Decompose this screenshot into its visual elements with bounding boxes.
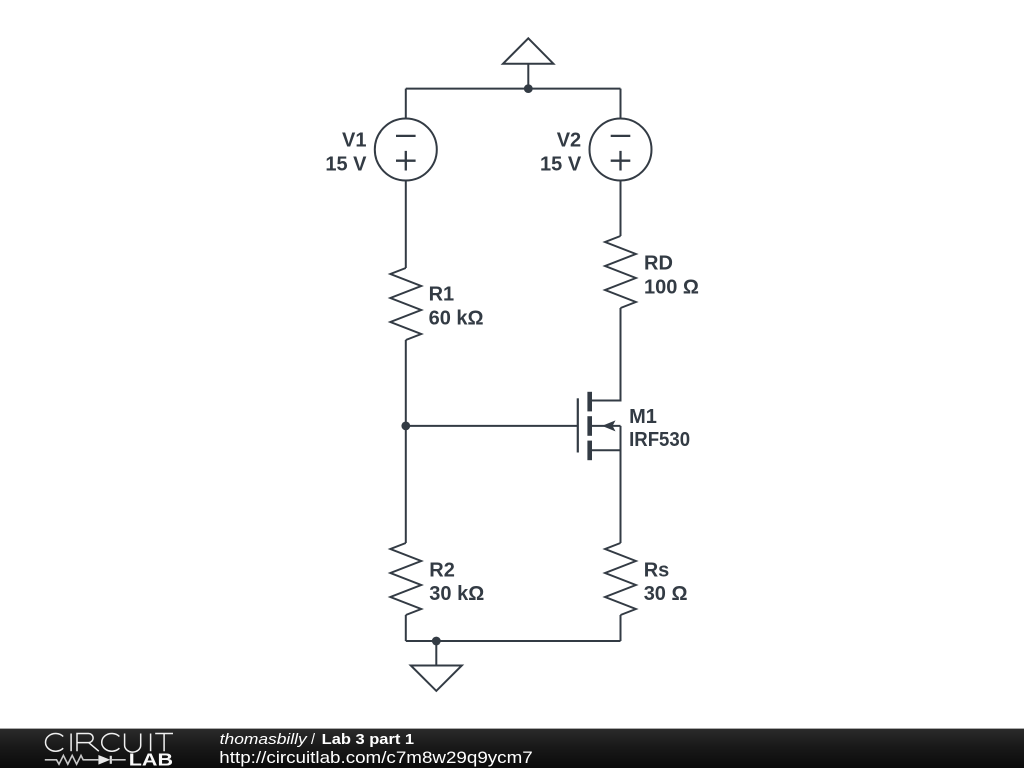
wire gate [406,425,578,427]
svg-text:IRF530: IRF530 [629,429,690,451]
wire Rs to bottom [620,615,622,641]
wire left top [405,89,407,119]
logo CIRCUIT [46,733,173,752]
wire R1 to R2 [405,340,407,543]
label R2 [429,559,484,605]
label M1 [629,406,690,451]
svg-text:http://circuitlab.com/c7m8w29q: http://circuitlab.com/c7m8w29q9ycm7 [219,748,532,767]
resistor RD [605,236,636,308]
wire V2 to RD [620,181,622,237]
footer title line [219,732,532,767]
wire right top [620,89,622,119]
resistor Rs [605,543,636,615]
svg-text:100 Ω: 100 Ω [644,277,699,299]
svg-text:30 Ω: 30 Ω [644,583,688,605]
svg-text:M1: M1 [629,406,657,428]
node top junction [524,84,533,93]
wire top horizontal [406,88,621,90]
wire R2 to bottom [405,615,407,641]
label V1 [325,130,367,176]
transistor M1 [578,392,621,460]
node ground junction [432,637,441,646]
wire V1 to R1 [405,181,407,269]
svg-text:Lab 3 part 1: Lab 3 part 1 [322,732,414,748]
voltage source V1 [375,119,437,181]
label R1 [429,284,484,330]
svg-text:V2: V2 [557,130,581,152]
svg-text:60 kΩ: 60 kΩ [429,307,484,329]
label RD [644,252,699,298]
svg-text:thomasbilly: thomasbilly [220,732,308,748]
svg-text:30 kΩ: 30 kΩ [429,583,484,605]
wire source down to Rs [620,426,622,543]
svg-text:LAB: LAB [129,750,173,768]
wire RD to drain [590,308,621,401]
resistor R1 [390,268,421,340]
ground [411,641,462,691]
svg-text:15 V: 15 V [325,153,367,175]
svg-text:R2: R2 [429,559,455,581]
svg-text:RD: RD [644,252,673,274]
logo squiggle resistor-diode [45,755,126,765]
voltage source V2 [590,119,652,181]
label Rs [644,559,688,604]
node gate junction [401,422,410,431]
svg-text:Rs: Rs [644,559,670,581]
svg-text:15 V: 15 V [540,153,582,175]
resistor R2 [390,543,421,615]
svg-text:V1: V1 [342,130,366,152]
label V2 [540,130,582,176]
svg-text:R1: R1 [429,284,455,306]
wire bottom horizontal [406,640,621,642]
power rail symbol VCC [503,38,553,88]
